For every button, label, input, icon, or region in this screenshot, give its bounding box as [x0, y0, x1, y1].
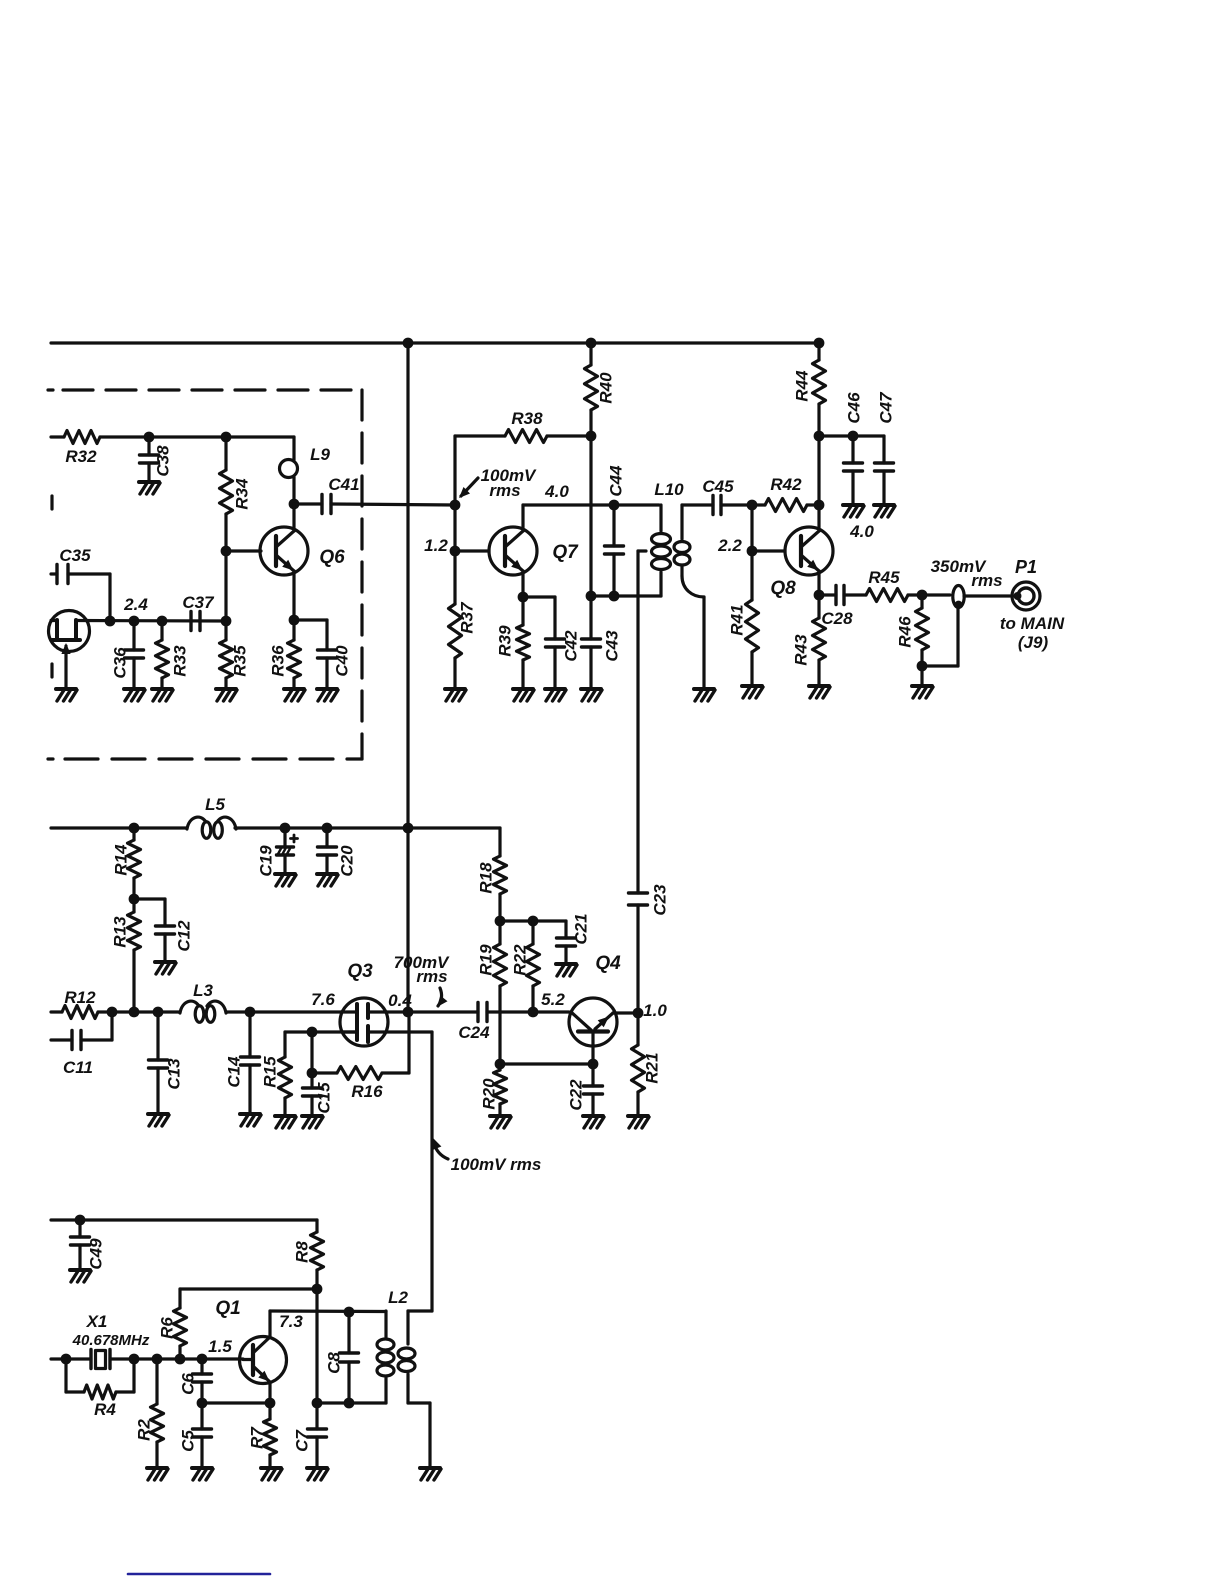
- svg-text:5.2: 5.2: [541, 990, 565, 1009]
- ground: [152, 689, 173, 701]
- capacitor C35: [51, 546, 110, 621]
- transistor Q3: [340, 961, 432, 1046]
- junction: [586, 591, 597, 602]
- svg-text:R2: R2: [135, 1419, 154, 1441]
- svg-text:C44: C44: [607, 465, 626, 497]
- junction node 100mV: [450, 500, 461, 511]
- ground: [192, 1468, 213, 1480]
- svg-text:C6: C6: [179, 1373, 198, 1395]
- junction: [280, 823, 291, 834]
- wire L10 tap: [638, 549, 646, 552]
- svg-text:2.2: 2.2: [717, 536, 742, 555]
- junction: [312, 1398, 323, 1409]
- label 100mV rms bottom: [433, 1138, 542, 1174]
- wire: [964, 594, 1013, 597]
- junction: [221, 616, 232, 627]
- resistor R44: [793, 343, 826, 505]
- junction: [307, 1068, 318, 1079]
- inductor L5: [187, 795, 236, 838]
- svg-text:C8: C8: [325, 1352, 344, 1374]
- svg-text:R22: R22: [511, 944, 530, 976]
- capacitor C24: [458, 1003, 490, 1043]
- node 5.2 label: [541, 990, 565, 1009]
- svg-text:C14: C14: [225, 1056, 244, 1088]
- junction: [105, 616, 116, 627]
- svg-text:C15: C15: [315, 1082, 334, 1114]
- wire Q7 base: [455, 549, 489, 552]
- junction: [157, 616, 168, 627]
- svg-text:1.0: 1.0: [643, 1001, 667, 1020]
- svg-text:R33: R33: [171, 645, 190, 677]
- svg-text:C41: C41: [328, 475, 359, 494]
- capacitor C7: [293, 1403, 327, 1468]
- wire Q7 collector: [521, 505, 524, 531]
- wire: [294, 502, 322, 505]
- svg-text:Q7: Q7: [552, 542, 579, 563]
- wire R32 row: [51, 435, 64, 438]
- ground: [284, 689, 305, 701]
- ground: [809, 686, 830, 698]
- wire: [453, 505, 456, 551]
- capacitor C13: [149, 1012, 184, 1114]
- label 700mV rms: [394, 953, 450, 1007]
- capacitor C15: [303, 1073, 334, 1116]
- wire: [317, 1401, 386, 1404]
- svg-text:4.0: 4.0: [544, 482, 569, 501]
- wire: [908, 593, 922, 596]
- junction: [586, 338, 597, 349]
- svg-text:C19: C19: [257, 845, 276, 877]
- resistor R18: [477, 828, 507, 921]
- ground: [240, 1114, 261, 1126]
- svg-text:Q8: Q8: [770, 578, 796, 599]
- wire: [523, 595, 555, 598]
- node 1.5 label: [208, 1337, 232, 1356]
- svg-text:C35: C35: [59, 546, 91, 565]
- ground: [261, 1468, 282, 1480]
- junction: [75, 1215, 86, 1226]
- junction: [197, 1354, 208, 1365]
- node 7.6 label: [311, 990, 335, 1009]
- svg-text:C23: C23: [651, 884, 670, 916]
- svg-text:R45: R45: [868, 568, 900, 587]
- junction: [814, 431, 825, 442]
- junction: [528, 916, 539, 927]
- svg-text:rms: rms: [489, 481, 520, 500]
- wire collector node 4.0: [523, 482, 659, 505]
- junction: [152, 1354, 163, 1365]
- junction: [528, 1007, 539, 1018]
- svg-text:7.6: 7.6: [311, 990, 335, 1009]
- resistor R21: [632, 1013, 662, 1116]
- transistor Q6: [260, 527, 345, 575]
- dashed shield box: [48, 390, 362, 759]
- transistor Q1: [240, 1311, 287, 1403]
- ground: [556, 964, 577, 976]
- ground: [843, 505, 864, 517]
- transistor Q4: [569, 953, 621, 1064]
- inductor L9: [280, 437, 331, 504]
- capacitor C21: [557, 913, 591, 964]
- svg-text:L2: L2: [388, 1288, 408, 1307]
- svg-text:C13: C13: [165, 1058, 184, 1090]
- wire tap drop to C23: [636, 551, 639, 893]
- svg-text:R40: R40: [597, 372, 616, 404]
- svg-text:1.2: 1.2: [424, 536, 448, 555]
- junction node 1.2: [424, 536, 460, 556]
- ground: [124, 689, 145, 701]
- capacitor C44: [605, 465, 626, 596]
- wire Q8 base: [752, 549, 785, 552]
- svg-text:R43: R43: [792, 634, 811, 666]
- junction: [129, 894, 140, 905]
- junction node 1.0: [633, 1001, 668, 1020]
- svg-text:R35: R35: [231, 645, 250, 677]
- wire C41 to 100mV node: [331, 504, 455, 505]
- junction: [609, 591, 620, 602]
- capacitor C41: [322, 475, 360, 514]
- junction: [344, 1307, 355, 1318]
- svg-text:C21: C21: [572, 913, 591, 944]
- capacitor C22: [567, 1064, 603, 1116]
- svg-text:R15: R15: [261, 1056, 280, 1088]
- svg-text:R16: R16: [351, 1082, 383, 1101]
- wire Q6 collector: [292, 504, 295, 531]
- wire: [500, 1062, 593, 1065]
- ground: [275, 874, 296, 886]
- junction: [153, 1007, 164, 1018]
- capacitor C37: [182, 593, 215, 631]
- resistor R20: [480, 1064, 507, 1116]
- footer mark: [128, 1573, 270, 1576]
- transistor FET input stage: [49, 611, 90, 690]
- wire gate line: [285, 1030, 357, 1033]
- svg-text:L5: L5: [205, 795, 225, 814]
- wire: [500, 919, 566, 922]
- svg-text:R32: R32: [65, 447, 97, 466]
- inductor L3: [180, 981, 226, 1022]
- svg-text:2.4: 2.4: [123, 595, 148, 614]
- wire: [408, 1403, 430, 1468]
- svg-text:C7: C7: [293, 1429, 312, 1452]
- capacitor C45: [702, 477, 734, 515]
- svg-text:R4: R4: [94, 1400, 116, 1419]
- svg-text:rms: rms: [971, 571, 1002, 590]
- svg-text:R14: R14: [112, 844, 131, 876]
- svg-text:Q4: Q4: [595, 953, 621, 974]
- resistor R43: [792, 595, 826, 686]
- resistor R45: [866, 568, 908, 602]
- ground: [545, 689, 566, 701]
- wire Q6 base: [226, 549, 261, 552]
- ground: [302, 1116, 323, 1128]
- resistor R12: [62, 988, 98, 1019]
- wire: [682, 503, 713, 506]
- ground: [490, 1116, 511, 1128]
- svg-text:R34: R34: [233, 478, 252, 510]
- feedthrough bead: [953, 586, 964, 609]
- junction: [814, 500, 825, 511]
- ground: [56, 689, 77, 701]
- capacitor C36: [111, 621, 144, 689]
- label 350mV rms: [931, 557, 1003, 590]
- svg-text:R44: R44: [793, 370, 812, 402]
- svg-text:rms: rms: [416, 967, 447, 986]
- svg-text:C5: C5: [179, 1430, 198, 1452]
- wire: [310, 1032, 313, 1073]
- junction: [107, 1007, 118, 1018]
- ground: [155, 962, 176, 974]
- junction: [265, 1398, 276, 1409]
- svg-text:R13: R13: [111, 916, 130, 948]
- resistor R38: [455, 409, 591, 443]
- wire top supply rail: [51, 341, 819, 344]
- wire: [294, 618, 327, 621]
- capacitor C12: [156, 899, 194, 962]
- junction: [403, 338, 414, 349]
- svg-text:R36: R36: [269, 645, 288, 677]
- junction: [917, 590, 928, 601]
- resistor R6: [158, 1289, 187, 1359]
- ground: [583, 1116, 604, 1128]
- resistor R34: [220, 437, 252, 551]
- capacitor C42: [546, 597, 581, 689]
- junction: [129, 823, 140, 834]
- resistor R36: [269, 620, 301, 689]
- svg-text:R8: R8: [293, 1241, 312, 1263]
- resistor R2: [135, 1359, 164, 1468]
- capacitor C47: [875, 391, 896, 505]
- junction: [814, 590, 825, 601]
- wire Q4 emitter out: [613, 1011, 638, 1014]
- inductor L10 primary: [652, 480, 685, 596]
- wire: [235, 826, 408, 829]
- svg-text:40.678MHz: 40.678MHz: [72, 1332, 150, 1349]
- svg-text:L10: L10: [654, 480, 684, 499]
- resistor R33: [156, 621, 190, 689]
- resistor R16: [312, 1012, 409, 1101]
- junction: [586, 431, 597, 442]
- junction: [322, 823, 333, 834]
- ground: [912, 686, 933, 698]
- ground: [216, 689, 237, 701]
- svg-text:R20: R20: [480, 1078, 499, 1110]
- capacitor C19: [257, 828, 298, 877]
- ground: [581, 689, 602, 701]
- svg-text:X1: X1: [86, 1312, 108, 1331]
- svg-text:C20: C20: [338, 845, 357, 877]
- svg-text:C42: C42: [562, 630, 581, 662]
- svg-text:C37: C37: [182, 593, 215, 612]
- wire Q7 emitter: [521, 571, 524, 597]
- svg-text:R6: R6: [158, 1317, 177, 1339]
- ground: [307, 1468, 328, 1480]
- capacitor C43: [582, 596, 622, 689]
- connector P1: [1012, 557, 1040, 610]
- resistor R15: [261, 1032, 292, 1116]
- svg-text:C36: C36: [111, 647, 130, 679]
- node 2.4 label: [123, 595, 148, 614]
- junction: [344, 1398, 355, 1409]
- svg-text:0.4: 0.4: [388, 991, 412, 1010]
- svg-text:R46: R46: [896, 616, 915, 648]
- ground: [70, 1270, 91, 1282]
- wire: [408, 1309, 432, 1312]
- svg-text:4.0: 4.0: [849, 522, 874, 541]
- resistor R4: [66, 1359, 134, 1419]
- junction: [307, 1027, 318, 1038]
- ground: [148, 1114, 169, 1126]
- junction: [495, 1059, 506, 1070]
- junction: [848, 431, 859, 442]
- wire: [180, 1287, 317, 1290]
- wire: [134, 897, 165, 900]
- capacitor C28: [821, 586, 853, 629]
- svg-text:C45: C45: [702, 477, 734, 496]
- capacitor C23: [629, 884, 670, 1013]
- wire R18 feed: [408, 826, 500, 829]
- capacitor C6: [179, 1359, 212, 1403]
- svg-text:C22: C22: [567, 1079, 586, 1111]
- svg-text:C46: C46: [845, 392, 864, 424]
- junction: [129, 616, 140, 627]
- svg-text:C24: C24: [458, 1023, 490, 1042]
- wire: [819, 593, 836, 596]
- svg-text:R41: R41: [728, 604, 747, 635]
- capacitor C38: [140, 437, 173, 482]
- junction: [289, 499, 300, 510]
- resistor R8: [293, 1220, 324, 1289]
- svg-text:C40: C40: [333, 645, 352, 677]
- ground: [317, 689, 338, 701]
- ground: [420, 1468, 441, 1480]
- wire Q8 emitter: [817, 571, 820, 595]
- wire C43-C44-L10 bottom link: [591, 594, 661, 597]
- svg-text:R38: R38: [511, 409, 543, 428]
- transistor Q7: [489, 527, 579, 575]
- ground: [513, 689, 534, 701]
- wire: [922, 593, 950, 596]
- junction: [518, 592, 529, 603]
- label 100mV rms: [459, 466, 537, 500]
- ground: [742, 686, 763, 698]
- inductor L2 primary: [377, 1288, 408, 1403]
- svg-text:R18: R18: [477, 862, 496, 894]
- resistor R42: [752, 475, 819, 512]
- wire R34-R35 link: [224, 551, 227, 621]
- svg-text:100mV rms: 100mV rms: [451, 1155, 542, 1174]
- svg-text:L9: L9: [310, 445, 330, 464]
- wire: [487, 1010, 569, 1013]
- svg-text:C12: C12: [175, 920, 194, 952]
- junction: [747, 500, 758, 511]
- capacitor C40: [318, 620, 352, 689]
- svg-text:Q1: Q1: [215, 1298, 240, 1319]
- ground: [275, 1116, 296, 1128]
- svg-text:(J9): (J9): [1018, 633, 1049, 652]
- ground: [874, 505, 895, 517]
- resistor R35: [220, 621, 250, 689]
- ground: [317, 874, 338, 886]
- junction: [129, 1354, 140, 1365]
- ground: [628, 1116, 649, 1128]
- resistor R41: [728, 551, 759, 686]
- wire: [98, 1010, 180, 1013]
- resistor R13: [111, 899, 141, 1012]
- wire L5 row: [51, 826, 187, 829]
- wire: [226, 1010, 341, 1013]
- svg-text:R12: R12: [64, 988, 96, 1007]
- svg-text:Q6: Q6: [319, 547, 345, 568]
- ground: [147, 1468, 168, 1480]
- wire: [721, 503, 752, 506]
- svg-text:R19: R19: [477, 944, 496, 976]
- svg-text:R39: R39: [496, 625, 515, 657]
- junction: [609, 500, 620, 511]
- resistor R40: [585, 343, 616, 436]
- junction: [175, 1354, 186, 1365]
- svg-text:P1: P1: [1015, 557, 1037, 577]
- wire R40 to C43: [589, 436, 592, 596]
- wire: [920, 666, 923, 686]
- wire X1 row: [51, 1357, 91, 1360]
- capacitor C5: [179, 1403, 212, 1468]
- svg-text:Q3: Q3: [347, 961, 373, 982]
- junction node 2.2: [717, 536, 757, 556]
- node 0.4 label: [388, 991, 412, 1010]
- capacitor C8: [325, 1312, 359, 1403]
- resistor R19: [477, 921, 507, 1064]
- svg-text:7.3: 7.3: [279, 1312, 303, 1331]
- svg-text:C11: C11: [63, 1058, 93, 1077]
- junction: [221, 546, 232, 557]
- resistor R37: [449, 551, 477, 689]
- resistor R7: [248, 1403, 277, 1468]
- svg-text:R37: R37: [458, 601, 477, 634]
- junction: [403, 823, 414, 834]
- svg-text:C28: C28: [821, 609, 853, 628]
- inductor L10 secondary: [674, 505, 704, 689]
- label Q1: [215, 1298, 240, 1319]
- junction: [144, 432, 155, 443]
- ground: [694, 689, 715, 701]
- wire Q8 collector: [817, 505, 820, 531]
- wire FET drain to node 2.4: [76, 619, 226, 623]
- svg-text:R42: R42: [770, 475, 802, 494]
- wire: [202, 1401, 270, 1404]
- capacitor C20: [318, 828, 357, 877]
- ground: [445, 689, 466, 701]
- resistor R22: [511, 921, 540, 1012]
- junction: [495, 916, 506, 927]
- wire Q3 gate2 drop: [430, 1032, 433, 1311]
- wire Q3 row: [51, 1010, 62, 1013]
- junction: [221, 432, 232, 443]
- capacitor C49: [71, 1220, 106, 1270]
- svg-text:L3: L3: [193, 981, 213, 1000]
- junction: [312, 1284, 323, 1295]
- svg-text:C47: C47: [877, 391, 896, 424]
- label to MAIN (J9): [1000, 614, 1065, 652]
- wire C49 row: [51, 1218, 317, 1221]
- junction: [245, 1007, 256, 1018]
- wire R38 left drop: [453, 436, 456, 505]
- junction: [588, 1059, 599, 1070]
- wire: [100, 435, 294, 438]
- wire: [922, 608, 958, 666]
- wire: [844, 593, 866, 596]
- wire collector 7.3 node: [270, 1311, 386, 1331]
